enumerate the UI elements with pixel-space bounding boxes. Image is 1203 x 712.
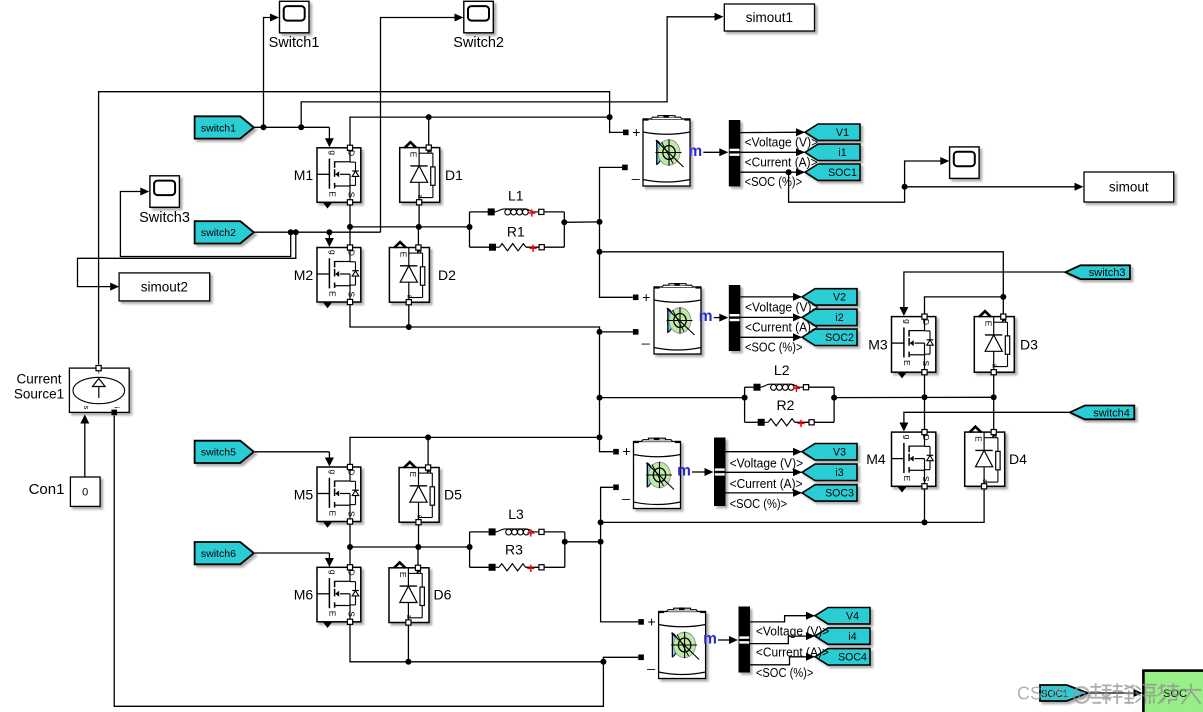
svg-text:i1: i1 xyxy=(838,147,846,159)
svg-text:m: m xyxy=(703,631,717,648)
svg-text:+: + xyxy=(632,124,640,140)
svg-text:V2: V2 xyxy=(833,292,846,304)
svg-text:g: g xyxy=(328,570,338,575)
svg-text:D2: D2 xyxy=(438,267,456,283)
svg-text:g: g xyxy=(903,319,913,324)
svg-text:<Current (A)>: <Current (A)> xyxy=(745,154,818,169)
svg-text:V1: V1 xyxy=(836,127,849,139)
svg-text:Con1: Con1 xyxy=(29,481,65,498)
svg-text:E: E xyxy=(398,252,408,258)
svg-text:<Current (A)>: <Current (A)> xyxy=(730,476,803,491)
svg-text:D5: D5 xyxy=(444,487,462,503)
svg-text:SOC2: SOC2 xyxy=(825,332,854,344)
svg-text:L1: L1 xyxy=(508,188,524,204)
svg-text:CSDN: CSDN xyxy=(1017,684,1068,704)
svg-text:R1: R1 xyxy=(507,224,525,240)
svg-text:<Voltage (V)>: <Voltage (V)> xyxy=(730,456,804,471)
svg-text:E: E xyxy=(902,476,912,482)
svg-text:a: a xyxy=(415,514,422,518)
svg-text:<Voltage (V)>: <Voltage (V)> xyxy=(745,135,819,150)
svg-text:Current: Current xyxy=(16,372,61,387)
svg-text:<Current (A)>: <Current (A)> xyxy=(756,645,829,660)
svg-text:g: g xyxy=(328,470,338,475)
svg-text:SOC4: SOC4 xyxy=(838,652,867,664)
svg-text:g: g xyxy=(328,150,338,155)
svg-text:switch3: switch3 xyxy=(1089,267,1126,279)
svg-text:_: _ xyxy=(631,164,640,180)
svg-text:<SOC (%)>: <SOC (%)> xyxy=(756,665,814,680)
svg-text:S: S xyxy=(921,361,931,367)
svg-text:M2: M2 xyxy=(294,267,314,283)
svg-text:simout1: simout1 xyxy=(746,10,793,25)
svg-text:D6: D6 xyxy=(434,587,452,603)
svg-text:E: E xyxy=(328,191,338,197)
svg-text:E: E xyxy=(983,321,993,327)
svg-text:R3: R3 xyxy=(505,542,523,558)
svg-text:switch2: switch2 xyxy=(201,227,236,239)
svg-text:D3: D3 xyxy=(1020,337,1038,353)
svg-text:S: S xyxy=(347,291,357,297)
svg-text:<Voltage (V)>: <Voltage (V)> xyxy=(756,623,830,638)
svg-text:g: g xyxy=(903,435,913,440)
svg-text:M6: M6 xyxy=(294,587,314,603)
svg-text:E: E xyxy=(902,360,912,366)
svg-text:a: a xyxy=(416,195,423,199)
svg-text:<Voltage (V)>: <Voltage (V)> xyxy=(745,300,819,315)
svg-text:+: + xyxy=(648,613,656,629)
svg-text:g: g xyxy=(328,250,338,255)
svg-text:D1: D1 xyxy=(445,167,463,183)
svg-text:a: a xyxy=(981,479,988,483)
svg-text:E: E xyxy=(974,436,984,442)
svg-text:M1: M1 xyxy=(294,167,314,183)
svg-text:M3: M3 xyxy=(868,337,888,353)
svg-text:+: + xyxy=(622,443,630,459)
svg-text:E: E xyxy=(409,152,419,158)
svg-text:E: E xyxy=(328,291,338,297)
svg-text:i4: i4 xyxy=(848,631,856,643)
svg-text:switch4: switch4 xyxy=(1093,407,1130,419)
svg-text:Switch1: Switch1 xyxy=(269,35,320,51)
svg-text:SOC3: SOC3 xyxy=(825,488,854,500)
svg-text:S: S xyxy=(347,611,357,617)
svg-text:E: E xyxy=(328,611,338,617)
svg-text:i2: i2 xyxy=(835,312,843,324)
svg-text:_: _ xyxy=(646,654,655,670)
svg-text:m: m xyxy=(677,463,691,480)
svg-text:m: m xyxy=(688,143,702,160)
svg-text:simout2: simout2 xyxy=(141,280,188,295)
svg-text:<Current (A)>: <Current (A)> xyxy=(745,319,818,334)
svg-text:_: _ xyxy=(621,484,630,500)
svg-text:m: m xyxy=(699,308,713,325)
svg-text:a: a xyxy=(405,615,412,619)
svg-text:switch6: switch6 xyxy=(201,548,236,560)
svg-text:S: S xyxy=(347,511,357,517)
svg-text:R2: R2 xyxy=(777,397,795,413)
svg-text:Switch2: Switch2 xyxy=(453,35,504,51)
svg-text:S: S xyxy=(347,192,357,198)
svg-text:V4: V4 xyxy=(846,611,859,623)
svg-text:L3: L3 xyxy=(508,506,524,522)
svg-text:L2: L2 xyxy=(774,362,790,378)
svg-text:s: s xyxy=(82,406,91,410)
svg-text:E: E xyxy=(408,472,418,478)
svg-text:SOC1: SOC1 xyxy=(828,167,857,179)
svg-text:<SOC (%)>: <SOC (%)> xyxy=(730,496,788,511)
svg-text:V3: V3 xyxy=(833,447,846,459)
svg-text:<SOC (%)>: <SOC (%)> xyxy=(745,339,803,354)
svg-text:Switch3: Switch3 xyxy=(139,210,190,226)
svg-text:a: a xyxy=(991,364,998,368)
svg-text:<SOC (%)>: <SOC (%)> xyxy=(745,174,803,189)
svg-text:M4: M4 xyxy=(866,451,886,467)
svg-text:D4: D4 xyxy=(1009,451,1027,467)
svg-text:switch1: switch1 xyxy=(201,122,236,134)
svg-text:a: a xyxy=(406,294,413,298)
svg-text:switch5: switch5 xyxy=(201,447,236,459)
svg-text:S: S xyxy=(921,476,931,482)
svg-text:+: + xyxy=(642,289,650,305)
svg-text:_: _ xyxy=(641,328,650,344)
svg-text:0: 0 xyxy=(82,487,88,499)
svg-text:simout: simout xyxy=(1109,180,1149,195)
svg-text:i3: i3 xyxy=(835,467,843,479)
svg-text:E: E xyxy=(328,510,338,516)
svg-text:M5: M5 xyxy=(294,487,314,503)
svg-text:E: E xyxy=(398,572,408,578)
svg-text:Source1: Source1 xyxy=(14,387,64,402)
